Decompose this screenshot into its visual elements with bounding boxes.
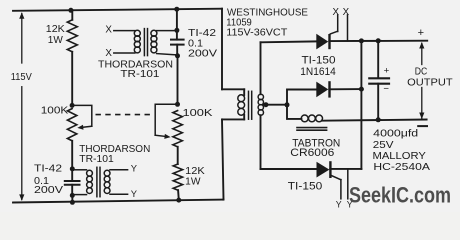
wire T1 sec bottom lead bbox=[157, 54, 178, 55]
choke L1 TABTRON CR6006 winding bbox=[301, 115, 322, 122]
label DC bbox=[415, 67, 428, 78]
node pot2 top bbox=[175, 102, 180, 107]
label THORDARSON upper bbox=[98, 59, 173, 70]
label THORDARSON lower bbox=[79, 144, 150, 155]
svg-text:CR6006: CR6006 bbox=[290, 147, 334, 159]
node plus rail cap bbox=[376, 38, 381, 43]
label DC plus bbox=[418, 27, 424, 39]
wire T3 sec bottom lead down bbox=[260, 115, 262, 169]
diode D3 TI-150 bbox=[317, 161, 331, 178]
svg-text:DC: DC bbox=[415, 67, 428, 78]
svg-text:1W: 1W bbox=[48, 35, 64, 46]
svg-text:+: + bbox=[418, 27, 424, 39]
transformer T1 primary winding bbox=[134, 30, 140, 53]
wire choke feed bbox=[287, 105, 301, 119]
wire D3 cathode bbox=[330, 168, 361, 170]
label TABTRON bbox=[292, 137, 340, 149]
transformer T2 secondary winding bbox=[104, 170, 110, 193]
wire Y slant bbox=[332, 176, 341, 180]
node cap2 bottom bbox=[175, 53, 180, 58]
transformer T2 primary winding bbox=[87, 170, 93, 193]
wire left branch mid bbox=[71, 52, 73, 106]
svg-text:X: X bbox=[105, 48, 112, 59]
svg-text:TR-101: TR-101 bbox=[79, 154, 114, 165]
label Y lower bbox=[131, 188, 138, 199]
label OUTPUT bbox=[407, 77, 453, 88]
svg-text:Y: Y bbox=[131, 188, 138, 199]
wire pot1 to node bbox=[71, 141, 73, 169]
label TI-42 lower bbox=[34, 164, 62, 175]
label Y upper bbox=[131, 163, 138, 174]
label TR-101 upper bbox=[120, 69, 159, 80]
label TI-150 upper bbox=[302, 55, 336, 67]
label MALLORY bbox=[373, 151, 427, 162]
label 115V-36VCT bbox=[226, 27, 288, 38]
wire Y2 terminal lead bbox=[347, 169, 349, 199]
node bottom-left junction bbox=[70, 200, 75, 205]
wire T3 pri top lead bbox=[222, 88, 244, 90]
label 100K left bbox=[41, 105, 69, 116]
label cap minus bbox=[383, 83, 389, 94]
wire T3 pri top stub bbox=[243, 89, 245, 95]
label cap plus bbox=[384, 66, 390, 77]
watermark SeekIC.com bbox=[349, 182, 451, 207]
pot2 wiper arm bbox=[155, 104, 177, 139]
svg-text:OUTPUT: OUTPUT bbox=[407, 77, 453, 88]
label CR6006 bbox=[290, 147, 334, 159]
wire cap1 to rail bbox=[71, 195, 73, 202]
wire T2 pri top lead bbox=[72, 169, 86, 171]
node cap2 top bbox=[174, 28, 179, 33]
wire T3 pri bottom stub bbox=[243, 115, 245, 120]
label DC minus bbox=[418, 125, 427, 127]
transformer T3 core bbox=[249, 91, 252, 119]
svg-text:+: + bbox=[384, 66, 390, 77]
wire T1 sec top lead bbox=[157, 30, 177, 32]
gang dashed link bbox=[96, 114, 152, 116]
wire top rail bbox=[13, 9, 222, 11]
svg-text:X: X bbox=[343, 7, 350, 18]
svg-text:TI-150: TI-150 bbox=[302, 55, 336, 67]
svg-text:1W: 1W bbox=[185, 177, 201, 188]
wire primary return drop bbox=[222, 119, 224, 199]
label 25V bbox=[373, 140, 394, 151]
label Y2 terminal bbox=[347, 200, 353, 210]
diode D1 TI-150 1N1614 bbox=[316, 34, 329, 50]
wire D2 anode riser bbox=[287, 90, 317, 105]
node minus rail cap bbox=[376, 117, 381, 122]
wire negative rail bbox=[322, 120, 427, 121]
svg-text:115V-36VCT: 115V-36VCT bbox=[226, 27, 288, 38]
svg-text:Y: Y bbox=[336, 200, 342, 210]
node cap1 top bbox=[70, 166, 75, 171]
pot1 wiper arm bbox=[72, 105, 92, 129]
diode D3 anode wire bbox=[261, 168, 318, 170]
wire plus bus vertical bbox=[360, 41, 362, 169]
capacitor C3 4000ufd bbox=[369, 41, 389, 120]
label 12K right bbox=[185, 166, 205, 177]
label 100K right bbox=[183, 108, 213, 119]
potentiometer R2 100K bbox=[67, 109, 76, 141]
transformer T2 core bbox=[97, 167, 100, 196]
svg-text:12K: 12K bbox=[46, 24, 65, 35]
svg-text:200V: 200V bbox=[188, 48, 217, 59]
DC output arrow bbox=[419, 42, 424, 119]
wire T2 pri bottom lead bbox=[72, 194, 86, 196]
label 0.1 lower bbox=[34, 176, 49, 187]
svg-text:THORDARSON: THORDARSON bbox=[79, 144, 150, 155]
wire X2 terminal lead bbox=[347, 15, 349, 41]
wire D2 cathode bbox=[329, 88, 361, 90]
svg-text:X: X bbox=[333, 7, 340, 18]
wire X1 terminal lead bbox=[337, 15, 339, 32]
wire T3 pri bottom lead bbox=[222, 118, 244, 120]
svg-text:Y: Y bbox=[131, 163, 138, 174]
node plus rail left bbox=[359, 38, 364, 43]
label Y1 terminal bbox=[336, 200, 342, 210]
wire bottom-left rail bbox=[13, 200, 224, 203]
label 200V lower bbox=[34, 185, 64, 196]
transformer T1 core bbox=[144, 29, 147, 56]
node top-right junction bbox=[174, 7, 179, 12]
resistor R1 12K 1W bbox=[67, 20, 77, 52]
node D2 out bbox=[359, 87, 364, 92]
label TR-101 lower bbox=[79, 154, 114, 165]
svg-text:1N1614: 1N1614 bbox=[300, 66, 336, 78]
svg-text:SeekIC.com: SeekIC.com bbox=[349, 182, 451, 207]
label 200V upper bbox=[188, 48, 217, 59]
wire T2 sec bottom lead to Y bbox=[110, 193, 128, 195]
label 1N1614 bbox=[300, 66, 336, 78]
wire positive rail bbox=[329, 40, 427, 42]
svg-text:115V: 115V bbox=[11, 72, 32, 83]
svg-text:−: − bbox=[383, 83, 389, 94]
label 1W right bbox=[185, 177, 201, 188]
svg-text:200V: 200V bbox=[34, 185, 64, 196]
node pot1 top bbox=[70, 103, 75, 108]
wire R4 to rail bbox=[177, 190, 180, 200]
label X lower-left bbox=[105, 48, 112, 59]
wire X slant bbox=[330, 31, 337, 34]
node bottom junction right branch bbox=[176, 198, 181, 203]
wire pot2 to R4 bbox=[177, 147, 179, 164]
label X1 terminal bbox=[333, 7, 340, 18]
svg-text:12K: 12K bbox=[185, 166, 205, 177]
svg-text:TR-101: TR-101 bbox=[120, 69, 159, 80]
label X upper-left bbox=[105, 25, 112, 36]
svg-text:TI-42: TI-42 bbox=[34, 164, 62, 175]
115V dimension arrow bbox=[19, 12, 24, 201]
wire T2 sec top lead to Y bbox=[110, 169, 128, 171]
node top-left junction bbox=[68, 8, 73, 13]
svg-text:X: X bbox=[105, 25, 112, 36]
node cap1 bottom bbox=[70, 193, 75, 198]
transformer T3 secondary winding bbox=[258, 94, 263, 115]
svg-text:100K: 100K bbox=[41, 105, 69, 116]
label TI-150 lower bbox=[288, 181, 323, 193]
label 1W bbox=[48, 35, 64, 46]
wire Y1 terminal lead bbox=[340, 180, 342, 199]
label 11059 bbox=[226, 18, 252, 29]
capacitor C1 TI-42 0.1 200V bbox=[65, 169, 80, 196]
potentiometer R3 100K bbox=[173, 111, 182, 147]
wire left branch upper bbox=[71, 10, 73, 19]
wire center tap lead bbox=[264, 104, 288, 106]
svg-text:100K: 100K bbox=[183, 108, 213, 119]
svg-text:TI-42: TI-42 bbox=[188, 28, 216, 39]
svg-text:TI-150: TI-150 bbox=[288, 181, 323, 193]
label 0.1 upper bbox=[188, 39, 203, 50]
wire X2 lead bbox=[114, 52, 135, 54]
wire D1 anode bbox=[261, 40, 317, 43]
svg-text:HC-2540A: HC-2540A bbox=[373, 162, 430, 173]
wire X1 lead bbox=[114, 30, 135, 32]
wire top rail drop bbox=[221, 9, 223, 90]
transformer T3 primary winding bbox=[238, 95, 245, 115]
transformer T1 secondary winding bbox=[151, 30, 157, 53]
svg-text:4000μfd: 4000μfd bbox=[373, 128, 418, 139]
label X2 terminal bbox=[343, 7, 350, 18]
wire T3 sec top lead up bbox=[260, 42, 262, 94]
node sec center tap bbox=[263, 102, 268, 107]
label TI-42 upper bbox=[188, 28, 216, 39]
wire right branch top bbox=[176, 9, 178, 30]
label 12K bbox=[46, 24, 65, 35]
resistor R4 12K 1W bbox=[173, 164, 182, 190]
label 4000ufd bbox=[373, 128, 418, 139]
capacitor C2 TI-42 0.1 200V bbox=[171, 30, 184, 55]
label 115V bbox=[11, 72, 32, 83]
diode D2 TI-150 bbox=[316, 81, 329, 97]
wire right branch mid bbox=[177, 56, 179, 104]
label HC-2540A bbox=[373, 162, 430, 173]
node CT junction bbox=[285, 102, 290, 107]
choke L1 core bbox=[297, 128, 327, 131]
svg-text:25V: 25V bbox=[373, 140, 394, 151]
svg-text:MALLORY: MALLORY bbox=[373, 151, 427, 162]
label WESTINGHOUSE bbox=[227, 8, 308, 19]
